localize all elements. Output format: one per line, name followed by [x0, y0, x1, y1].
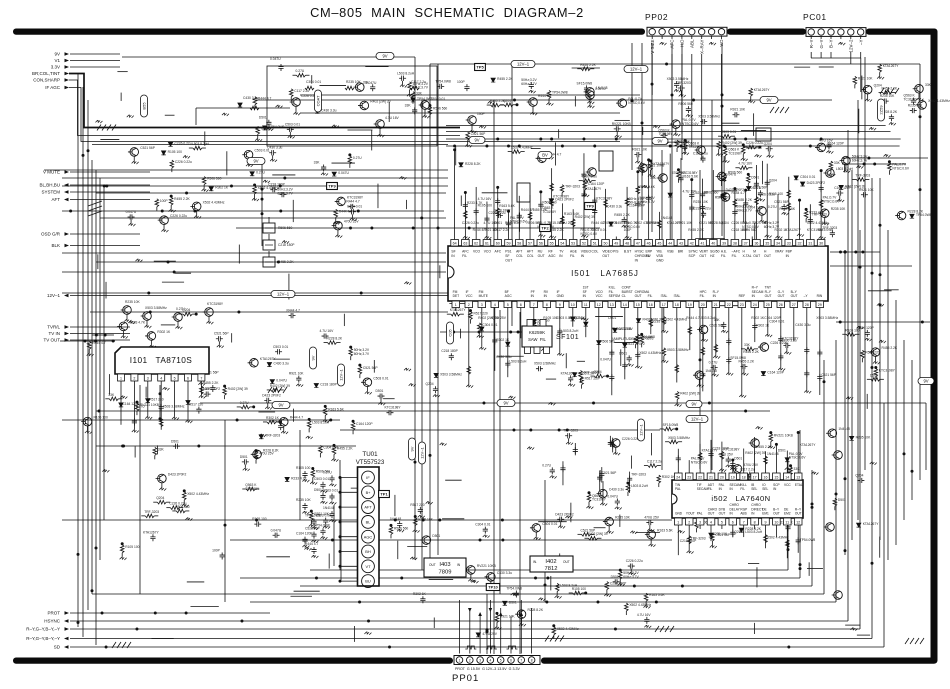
svg-text:56: 56	[539, 242, 543, 246]
svg-text:OUT: OUT	[538, 254, 545, 258]
svg-text:FIL: FIL	[648, 294, 653, 298]
svg-text:TRF-3203: TRF-3203	[812, 212, 827, 216]
svg-text:BH: BH	[365, 549, 371, 554]
svg-text:AFT: AFT	[516, 250, 522, 254]
svg-text:L503 8.2uH: L503 8.2uH	[192, 142, 210, 146]
svg-text:0.047U: 0.047U	[600, 357, 611, 361]
svg-text:12V–1: 12V–1	[517, 62, 530, 67]
svg-text:VIDEO: VIDEO	[602, 250, 613, 254]
svg-text:BL,BH,BU: BL,BH,BU	[39, 183, 60, 188]
svg-text:C304 0.01: C304 0.01	[482, 323, 497, 327]
svg-text:BRI: BRI	[678, 250, 684, 254]
svg-text:L503 8.2uH: L503 8.2uH	[631, 484, 649, 488]
svg-text:KTA1267Y: KTA1267Y	[585, 187, 602, 191]
svg-text:R235 10K: R235 10K	[346, 80, 361, 84]
svg-text:C164 120P: C164 120P	[356, 422, 373, 426]
svg-text:1N4148: 1N4148	[767, 452, 779, 456]
svg-text:X503 3.58MHz: X503 3.58MHz	[816, 316, 838, 320]
svg-text:C164 120P: C164 120P	[827, 141, 844, 145]
svg-text:RU: RU	[538, 250, 543, 254]
svg-text:C521 56P: C521 56P	[774, 200, 789, 204]
svg-text:EM2: EM2	[784, 512, 791, 516]
svg-text:COL: COL	[516, 254, 523, 258]
svg-text:60Hz;3.7V: 60Hz;3.7V	[354, 352, 370, 356]
svg-text:PROT G 15.5V G 12V–3 13.5V: PROT G 15.5V G 12V–3 13.5V G 3.3V	[455, 667, 520, 671]
svg-text:FIL: FIL	[708, 487, 713, 491]
svg-text:X503 3.58MHz: X503 3.58MHz	[668, 436, 690, 440]
svg-text:33K: 33K	[925, 83, 932, 87]
svg-text:OUT: OUT	[765, 294, 772, 298]
svg-text:TRF-3203: TRF-3203	[565, 185, 580, 189]
svg-text:FIL: FIL	[570, 254, 575, 258]
svg-text:3: 3	[479, 658, 481, 662]
svg-text:I101 TA8710S: I101 TA8710S	[130, 355, 193, 365]
svg-text:G–Y: G–Y	[819, 40, 824, 49]
svg-text:TRF-3203: TRF-3203	[631, 473, 646, 477]
svg-text:X502 4.43MHz: X502 4.43MHz	[665, 317, 687, 321]
svg-text:7809: 7809	[439, 570, 452, 576]
svg-text:7: 7	[520, 658, 522, 662]
svg-text:X502 4.43MHz: X502 4.43MHz	[187, 492, 209, 496]
svg-text:R105 100: R105 100	[478, 204, 492, 208]
svg-text:0.27U: 0.27U	[323, 470, 332, 474]
svg-text:KTA1267Y: KTA1267Y	[800, 443, 817, 447]
svg-text:V.D: V.D	[719, 39, 724, 47]
svg-text:44: 44	[668, 242, 672, 246]
svg-text:R235 10K: R235 10K	[713, 532, 728, 536]
svg-text:TP54.0W8: TP54.0W8	[305, 514, 321, 518]
svg-text:TP1: TP1	[380, 492, 388, 497]
svg-text:R302 1K: R302 1K	[662, 475, 676, 479]
svg-text:VSB: VSB	[656, 254, 663, 258]
svg-text:C218 180P: C218 180P	[441, 349, 458, 353]
svg-text:RV221 10KB: RV221 10KB	[774, 434, 794, 438]
svg-text:11: 11	[584, 303, 588, 307]
svg-text:2: 2	[688, 521, 690, 525]
svg-text:2: 2	[133, 377, 135, 381]
svg-text:10: 10	[571, 303, 575, 307]
svg-text:R302 1K: R302 1K	[157, 330, 171, 334]
svg-text:470U 25V: 470U 25V	[482, 632, 497, 636]
svg-text:C521 56P: C521 56P	[214, 332, 229, 336]
svg-text:ITAL: ITAL	[674, 294, 681, 298]
svg-text:KTA1267Y: KTA1267Y	[450, 308, 467, 312]
svg-text:R921 10K: R921 10K	[632, 148, 647, 152]
svg-text:0.27U: 0.27U	[768, 205, 777, 209]
svg-text:X503 3.58MHz: X503 3.58MHz	[534, 362, 556, 366]
svg-text:RV50A 220B: RV50A 220B	[612, 327, 632, 331]
svg-text:COL: COL	[592, 250, 599, 254]
svg-text:TRF-3203: TRF-3203	[855, 173, 870, 177]
svg-text:SF15.0W8: SF15.0W8	[663, 423, 679, 427]
svg-text:BLK: BLK	[51, 243, 60, 248]
svg-text:8: 8	[754, 521, 756, 525]
svg-text:R105 100: R105 100	[769, 192, 783, 196]
svg-text:58: 58	[517, 242, 521, 246]
svg-text:D501: D501	[259, 116, 267, 120]
svg-text:NTSC;0.6V: NTSC;0.6V	[691, 460, 708, 464]
svg-text:TRF-3203: TRF-3203	[645, 221, 660, 225]
svg-text:R235 10K: R235 10K	[908, 104, 923, 108]
svg-text:21: 21	[714, 303, 718, 307]
svg-text:35: 35	[765, 242, 769, 246]
svg-text:I501 LA7685J: I501 LA7685J	[571, 269, 639, 278]
svg-text:FIL: FIL	[462, 254, 467, 258]
svg-text:C503 0.01: C503 0.01	[721, 130, 736, 134]
svg-text:TC3198Y: TC3198Y	[592, 498, 607, 502]
svg-text:0.047U: 0.047U	[338, 171, 349, 175]
svg-text:TRF-3203: TRF-3203	[265, 434, 280, 438]
svg-text:0.047U: 0.047U	[726, 173, 737, 177]
svg-text:V SIZE: V SIZE	[650, 40, 655, 54]
svg-text:1N4148: 1N4148	[705, 369, 717, 373]
svg-text:D501: D501	[171, 439, 179, 443]
svg-text:KTA1267Y: KTA1267Y	[785, 228, 802, 232]
svg-text:R402 [2W] 39: R402 [2W] 39	[587, 532, 607, 536]
svg-text:AFT: AFT	[364, 505, 372, 510]
svg-text:VCO: VCO	[484, 250, 492, 254]
svg-text:A.E.: A.E.	[721, 250, 727, 254]
svg-text:R455 2.2K: R455 2.2K	[882, 346, 898, 350]
svg-text:4.7U 16V: 4.7U 16V	[738, 162, 753, 166]
svg-text:43: 43	[679, 242, 683, 246]
svg-text:R921 10K: R921 10K	[677, 221, 692, 225]
svg-text:12: 12	[796, 521, 800, 525]
svg-text:19: 19	[688, 303, 692, 307]
svg-text:R455 2.2K: R455 2.2K	[756, 445, 772, 449]
svg-text:X502 4.43MHz: X502 4.43MHz	[807, 221, 829, 225]
svg-text:R302 1K: R302 1K	[751, 316, 765, 320]
svg-text:KTC3198Y: KTC3198Y	[782, 336, 799, 340]
svg-text:C226 0.22u: C226 0.22u	[746, 141, 763, 145]
svg-text:0.047U: 0.047U	[276, 379, 287, 383]
svg-text:X502 4.43MHz: X502 4.43MHz	[629, 603, 651, 607]
svg-text:6: 6	[520, 303, 522, 307]
svg-text:R402 [2W] 39: R402 [2W] 39	[270, 384, 290, 388]
svg-text:60Hz;3.7V: 60Hz;3.7V	[852, 158, 868, 162]
svg-text:RF: RF	[548, 250, 552, 254]
svg-text:C226 0.22u: C226 0.22u	[170, 214, 187, 218]
svg-text:33K: 33K	[744, 343, 751, 347]
svg-text:YOUT: YOUT	[686, 512, 695, 516]
svg-text:30: 30	[819, 242, 823, 246]
svg-text:OSD G/R: OSD G/R	[41, 232, 61, 237]
svg-text:X502 4.43MHz: X502 4.43MHz	[928, 99, 950, 103]
svg-text:REF: REF	[739, 294, 746, 298]
svg-text:DET: DET	[453, 294, 460, 298]
svg-text:0.27U: 0.27U	[709, 361, 718, 365]
svg-text:AFT: AFT	[52, 197, 61, 202]
svg-text:C164 120P: C164 120P	[764, 316, 781, 320]
svg-text:FIL: FIL	[740, 487, 745, 491]
svg-text:TRF-3203: TRF-3203	[144, 510, 159, 514]
svg-text:OUT: OUT	[778, 294, 785, 298]
svg-text:9V: 9V	[474, 138, 479, 143]
svg-text:0.27U: 0.27U	[240, 401, 249, 405]
svg-text:14: 14	[785, 476, 789, 480]
svg-text:2: 2	[469, 658, 471, 662]
svg-text:Q204: Q204	[734, 530, 742, 534]
svg-text:TV OUT: TV OUT	[44, 338, 61, 343]
svg-text:TC3198Y: TC3198Y	[728, 152, 743, 156]
svg-text:C430 3.3u: C430 3.3u	[321, 108, 336, 112]
svg-text:TRF-3203: TRF-3203	[563, 429, 578, 433]
svg-text:33K: 33K	[405, 103, 412, 107]
svg-text:SYSTEM: SYSTEM	[41, 190, 60, 195]
svg-text:3: 3	[481, 303, 483, 307]
svg-text:6: 6	[187, 377, 189, 381]
svg-text:14: 14	[623, 303, 627, 307]
svg-text:R105 100: R105 100	[572, 587, 586, 591]
svg-text:12V–1: 12V–1	[420, 446, 425, 458]
svg-text:1: 1	[677, 521, 679, 525]
svg-text:R235 10K: R235 10K	[296, 498, 311, 502]
svg-text:C503 0.01: C503 0.01	[273, 345, 288, 349]
svg-text:C430 3.3u: C430 3.3u	[496, 355, 511, 359]
svg-text:OUT: OUT	[429, 563, 436, 567]
svg-text:L503 8.2uH: L503 8.2uH	[560, 583, 578, 587]
svg-text:5: 5	[507, 303, 509, 307]
svg-text:ABL: ABL	[690, 39, 695, 48]
svg-text:10: 10	[774, 521, 778, 525]
svg-text:CM–805 MAIN SCHEMATIC DIAGR: CM–805 MAIN SCHEMATIC DIAGRAM–2	[310, 5, 584, 20]
svg-text:SF: SF	[505, 254, 509, 258]
svg-text:TC3198Y: TC3198Y	[904, 97, 919, 101]
svg-text:R235 10K: R235 10K	[615, 516, 630, 520]
svg-text:SEFSM: SEFSM	[609, 294, 621, 298]
svg-text:R402 [2W] 39: R402 [2W] 39	[228, 387, 248, 391]
svg-text:AGC: AGC	[548, 254, 556, 258]
svg-text:2Z59: 2Z59	[879, 105, 884, 115]
svg-text:KTC3198Y: KTC3198Y	[723, 447, 740, 451]
svg-text:R517 220: R517 220	[473, 312, 487, 316]
svg-text:VCO: VCO	[473, 250, 481, 254]
svg-text:R444 4.7: R444 4.7	[290, 416, 304, 420]
svg-text:OUT: OUT	[791, 294, 798, 298]
svg-text:C218 180P: C218 180P	[278, 243, 295, 247]
svg-text:PC01: PC01	[803, 12, 827, 22]
svg-text:12V–1: 12V–1	[630, 67, 643, 72]
svg-text:COAT: COAT	[316, 95, 321, 106]
svg-text:COL: COL	[527, 254, 534, 258]
svg-text:C304 0.01: C304 0.01	[475, 523, 490, 527]
svg-text:D501: D501	[376, 389, 384, 393]
svg-text:R455 2.2K: R455 2.2K	[579, 372, 595, 376]
svg-text:KTC3198Y: KTC3198Y	[879, 369, 896, 373]
svg-text:60Hz;3.7V: 60Hz;3.7V	[623, 575, 639, 579]
svg-text:54: 54	[560, 242, 564, 246]
svg-text:0.27U: 0.27U	[256, 171, 265, 175]
svg-text:31: 31	[808, 242, 812, 246]
svg-text:4: 4	[494, 303, 496, 307]
svg-text:9V: 9V	[766, 98, 771, 103]
svg-text:TV IN: TV IN	[48, 331, 60, 336]
svg-text:SEL: SEL	[762, 487, 768, 491]
svg-text:R455 2.2K: R455 2.2K	[497, 77, 513, 81]
svg-text:TU01: TU01	[362, 451, 378, 458]
svg-text:42: 42	[690, 242, 694, 246]
svg-text:AFC: AFC	[670, 39, 675, 49]
svg-text:R506 560: R506 560	[678, 102, 692, 106]
svg-text:TP54.0W8: TP54.0W8	[417, 97, 433, 101]
svg-text:VT557523: VT557523	[356, 459, 385, 466]
svg-text:C164 120P: C164 120P	[588, 182, 605, 186]
svg-text:9V: 9V	[923, 379, 928, 384]
svg-text:R–Y,G–Y,B–Y,–Y: R–Y,G–Y,B–Y,–Y	[26, 636, 60, 641]
svg-text:13: 13	[796, 476, 800, 480]
svg-text:KTA1267Y: KTA1267Y	[863, 522, 880, 526]
svg-text:9V: 9V	[382, 54, 387, 59]
svg-text:R235 10K: R235 10K	[880, 94, 895, 98]
svg-text:D501: D501	[838, 498, 846, 502]
svg-text:50: 50	[604, 242, 608, 246]
svg-text:C164 120P: C164 120P	[767, 370, 784, 374]
svg-text:NTSC;0.6V: NTSC;0.6V	[580, 232, 597, 236]
svg-text:470U 25V: 470U 25V	[491, 316, 506, 320]
svg-text:51: 51	[593, 242, 597, 246]
svg-text:9V: 9V	[410, 446, 415, 451]
svg-text:OUT: OUT	[764, 254, 771, 258]
svg-text:R444 4.7: R444 4.7	[346, 199, 360, 203]
svg-text:R921 10K: R921 10K	[859, 188, 874, 192]
svg-text:C503 0.01: C503 0.01	[323, 488, 338, 492]
svg-text:RV221 10KB: RV221 10KB	[477, 564, 497, 568]
svg-text:FIL: FIL	[700, 294, 705, 298]
svg-text:I402: I402	[545, 559, 556, 565]
svg-text:Q204: Q204	[156, 496, 164, 500]
svg-text:R228 8.2K: R228 8.2K	[465, 162, 481, 166]
svg-text:4.7U 16V: 4.7U 16V	[385, 116, 400, 120]
svg-text:KTC3198Y: KTC3198Y	[207, 302, 224, 306]
svg-text:0.27U: 0.27U	[353, 156, 362, 160]
svg-text:TP5: TP5	[476, 65, 484, 70]
svg-text:PAL: PAL	[675, 487, 681, 491]
svg-text:R455 2.2K: R455 2.2K	[736, 198, 752, 202]
svg-text:5: 5	[721, 521, 723, 525]
svg-text:3: 3	[147, 377, 149, 381]
svg-text:33K: 33K	[363, 80, 370, 84]
svg-text:37: 37	[744, 242, 748, 246]
svg-text:60Hz;3.7V: 60Hz;3.7V	[277, 191, 293, 195]
svg-text:R235 10K: R235 10K	[693, 200, 708, 204]
svg-text:C304 0.01: C304 0.01	[306, 80, 321, 84]
svg-text:Q204: Q204	[594, 370, 602, 374]
svg-text:R402 [2W] 39: R402 [2W] 39	[745, 451, 765, 455]
svg-text:R105 100: R105 100	[168, 150, 182, 154]
svg-text:V MUTE: V MUTE	[43, 170, 60, 175]
svg-text:21: 21	[709, 476, 713, 480]
svg-text:TP2: TP2	[541, 226, 549, 231]
svg-text:OUT: OUT	[708, 512, 715, 516]
svg-text:C521 56P: C521 56P	[363, 366, 378, 370]
svg-text:18: 18	[742, 476, 746, 480]
svg-text:15: 15	[636, 303, 640, 307]
svg-text:OUT: OUT	[753, 254, 760, 258]
svg-text:D423 2P0F2: D423 2P0F2	[262, 393, 281, 397]
svg-text:C304 0.01: C304 0.01	[769, 319, 784, 323]
svg-text:D501: D501	[611, 575, 619, 579]
svg-text:0.047U: 0.047U	[607, 495, 618, 499]
svg-text:C430 3.3u: C430 3.3u	[267, 146, 282, 150]
svg-text:CL: CL	[622, 294, 626, 298]
svg-text:BV: BV	[542, 153, 548, 158]
svg-text:33K: 33K	[834, 161, 841, 165]
svg-text:VT: VT	[366, 564, 372, 569]
svg-text:R402 [2W] 39: R402 [2W] 39	[370, 99, 390, 103]
svg-text:R–Y,G–Y,B–Y,–Y: R–Y,G–Y,B–Y,–Y	[26, 627, 60, 632]
svg-text:60Hz;3.7V: 60Hz;3.7V	[639, 200, 655, 204]
svg-text:R105 100: R105 100	[125, 545, 139, 549]
svg-text:1N4148: 1N4148	[596, 86, 608, 90]
svg-text:AFT: AFT	[527, 250, 533, 254]
svg-text:R517 220: R517 220	[585, 377, 599, 381]
svg-text:(AMPLITUDE): (AMPLITUDE)	[612, 337, 635, 341]
svg-text:41: 41	[701, 242, 705, 246]
svg-text:18: 18	[675, 303, 679, 307]
svg-text:C117 2.2u: C117 2.2u	[647, 460, 662, 464]
svg-text:13: 13	[610, 303, 614, 307]
svg-text:EM1: EM1	[762, 512, 769, 516]
svg-text:25: 25	[766, 303, 770, 307]
svg-text:7: 7	[743, 521, 745, 525]
svg-text:C503 0.01: C503 0.01	[602, 221, 617, 225]
svg-text:NTSC;0.6V: NTSC;0.6V	[823, 199, 840, 203]
svg-text:TP54.0W8: TP54.0W8	[314, 523, 330, 527]
svg-text:4.7U 16V: 4.7U 16V	[320, 329, 335, 333]
svg-text:12V–2: 12V–2	[849, 39, 854, 53]
svg-text:5: 5	[500, 658, 502, 662]
svg-text:KTC3198Y: KTC3198Y	[384, 406, 401, 410]
svg-text:PP01: PP01	[452, 673, 479, 684]
svg-text:Q204: Q204	[721, 221, 729, 225]
svg-text:20: 20	[720, 476, 724, 480]
svg-text:12: 12	[597, 303, 601, 307]
svg-text:XRAY: XRAY	[775, 250, 785, 254]
svg-text:TP54.0W8: TP54.0W8	[639, 335, 655, 339]
svg-text:BR;COL,TINT: BR;COL,TINT	[32, 71, 60, 76]
svg-text:R517 220: R517 220	[410, 503, 424, 507]
svg-text:0.047U: 0.047U	[270, 57, 281, 61]
svg-text:D501: D501	[509, 600, 517, 604]
svg-text:GND: GND	[675, 512, 683, 516]
svg-text:R506 560: R506 560	[433, 107, 447, 111]
svg-text:C503 0.01: C503 0.01	[591, 228, 606, 232]
svg-text:R228 8.2K: R228 8.2K	[327, 337, 343, 341]
svg-text:D501: D501	[432, 534, 440, 538]
svg-text:R302 1K: R302 1K	[413, 592, 427, 596]
svg-text:C226 0.22u: C226 0.22u	[169, 502, 186, 506]
svg-text:BL: BL	[366, 520, 372, 525]
svg-text:12V–1: 12V–1	[691, 417, 704, 422]
svg-text:KTA1267Y: KTA1267Y	[754, 88, 771, 92]
svg-text:1: 1	[120, 377, 122, 381]
svg-text:4: 4	[160, 377, 162, 381]
svg-text:C226 0.22u: C226 0.22u	[626, 559, 643, 563]
svg-text:C117 2.2u: C117 2.2u	[294, 89, 309, 93]
svg-text:X503 3.58MHz: X503 3.58MHz	[145, 306, 167, 310]
svg-text:24: 24	[676, 476, 680, 480]
svg-text:1N4148: 1N4148	[323, 506, 335, 510]
svg-text:Q204: Q204	[503, 99, 511, 103]
svg-text:SF15.0W8: SF15.0W8	[730, 356, 746, 360]
svg-text:SCP: SCP	[689, 254, 697, 258]
svg-text:R921 10K: R921 10K	[858, 76, 873, 80]
svg-text:PAL: PAL	[697, 512, 703, 516]
svg-text:39: 39	[722, 242, 726, 246]
svg-text:OUT: OUT	[719, 512, 726, 516]
svg-text:63: 63	[463, 242, 467, 246]
svg-text:9V: 9V	[278, 403, 283, 408]
